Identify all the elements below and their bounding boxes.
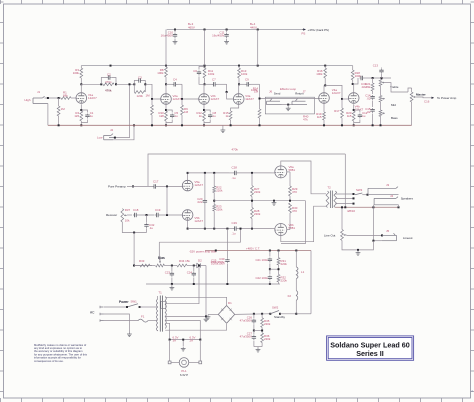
wire jack to grid resistor [45,97,62,99]
resistor R20 cathode [346,111,355,125]
border zone label remnant [471,389,473,393]
resistor R1 68k [61,91,71,100]
title block box [327,336,414,360]
wire grid wire bottom [188,228,229,230]
svg-text:consequences of its use.: consequences of its use. [34,359,64,363]
resistor R23 grid leak [213,205,223,229]
wire bridge minus to ground [208,313,218,315]
switch SW3 impedance [355,188,363,195]
label High input [25,98,31,102]
svg-text:Send: Send [274,91,281,95]
svg-text:470: 470 [292,209,297,213]
tube V5b [182,210,193,221]
wire J4 sleeve risers [373,205,398,208]
svg-text:12AX7: 12AX7 [211,97,220,101]
label C11 [212,31,225,38]
fuse F1 [138,315,148,323]
svg-text:Speakers: Speakers [401,197,414,201]
potentiometer bias trim [156,260,165,267]
capacitor C10 filter [173,30,178,45]
label Master [416,92,427,96]
tube V4a [319,93,330,104]
svg-text:J2: J2 [110,128,113,132]
resistor R13 plate 100k [238,68,248,78]
label Standby [274,315,286,319]
svg-text:J5: J5 [386,229,389,233]
resistor R34 15k [177,259,197,267]
svg-text:F1: F1 [141,315,145,319]
wire plate R8 to V2a [165,77,167,94]
wire V1a plate up [80,66,82,68]
wire node B drop V4a [324,66,326,68]
svg-text:470: 470 [292,190,297,194]
wire lineout sleeve [342,240,382,251]
svg-text:C24: C24 [187,271,193,275]
label Bass [391,116,398,120]
svg-text:F2: F2 [288,294,292,298]
transformer T1 secondary [165,297,166,329]
ground heater CT [181,347,186,352]
wire V1a cathode to bus [80,124,82,126]
wire top ground bus [48,124,412,126]
svg-text:465V: 465V [188,25,195,29]
svg-text:.02: .02 [366,97,370,101]
capacitor C3 [134,75,145,84]
resistor R9 grid leak [181,99,189,125]
svg-text:J1: J1 [37,90,40,94]
svg-text:.1u: .1u [149,226,153,230]
tube V2a [161,94,172,105]
svg-text:Recover: Recover [106,213,117,217]
diode bridge D1 [218,301,234,323]
resistor R31 [277,251,287,270]
svg-text:C7: C7 [212,78,216,82]
svg-text:100k: 100k [73,71,80,75]
wire C4 to V2b grid [181,84,199,100]
wire rect mid link [254,330,263,332]
wire master to output [416,97,434,99]
resistor R7 1M grid leak V2a [145,94,153,126]
wire plate R to V1a [80,78,82,93]
capacitor C17 [153,180,159,189]
capacitor C11 filter [224,30,229,45]
label V6a [289,165,296,172]
wire grid resistor to V1 grid [47,97,76,99]
label C26 [240,316,253,323]
svg-text:SW2: SW2 [272,306,279,310]
svg-text:1k5: 1k5 [74,114,79,118]
label R14b 100k [251,88,258,92]
wire bias ground bus [146,283,280,285]
svg-text:High: High [25,98,31,102]
svg-text:Bass: Bass [391,116,398,120]
svg-text:12AX7: 12AX7 [173,97,182,101]
connector J2 low jack [104,128,115,140]
svg-text:1M: 1M [145,94,150,98]
svg-text:AC: AC [90,311,95,315]
wire bias filter drop [225,229,229,284]
svg-text:220k: 220k [281,279,288,283]
svg-text:33k: 33k [366,85,371,89]
wire bias transformer feed 2 [205,266,207,317]
label impedance taps [347,209,355,213]
label +470V (back PS) [302,28,329,36]
svg-text:C23: C23 [165,271,171,275]
svg-text:12AX7: 12AX7 [194,183,203,187]
resistor R6 grid [134,83,146,98]
resistor R29 screen V6a [287,172,298,202]
wire jack sleeve down [47,104,49,126]
wire rect stack bottom [254,346,262,349]
wire RC to second network [116,83,135,85]
svg-text:100k: 100k [355,74,362,78]
connector J1 high jack [33,90,48,103]
svg-text:D1: D1 [228,301,232,305]
svg-text:C17: C17 [153,180,159,184]
capacitor C6 plate bypass [193,67,204,85]
tube V1a [76,93,87,104]
wire C17 to V5a grid [158,185,183,187]
svg-text:SW3: SW3 [356,188,363,192]
svg-text:220k: 220k [264,337,271,341]
transformer T1 shield [161,301,166,308]
transformer T2 secondary [334,191,337,208]
svg-text:220k: 220k [264,322,271,326]
label B+4 [250,22,257,29]
svg-text:47u/350V: 47u/350V [240,335,252,339]
potentiometer treble [379,78,385,86]
potentiometer bass [379,102,385,125]
terminal heater 1 [168,361,171,364]
wire T2 secondary taps [335,193,354,205]
transformer T1 core [160,296,162,332]
ground bias bus [170,284,175,290]
label V2b [211,94,220,101]
box effects loop [265,97,314,114]
svg-text:C13: C13 [373,64,379,68]
capacitor C13 treble [373,64,384,79]
label Effects Loop [280,87,296,91]
svg-text:C29: C29 [232,221,238,225]
transformer T2 primary [326,191,329,208]
label Pure Preamp [108,184,126,188]
svg-text:L1: L1 [301,270,305,274]
svg-text:12AX7: 12AX7 [332,91,341,95]
potentiometer recover [121,208,131,223]
connector J6 send jack [267,90,282,105]
ground top bus symbol [221,125,226,132]
svg-text:T2: T2 [327,186,331,190]
label T1 [158,291,162,295]
wire R13 to V3a plate [238,78,240,94]
connector J3 speaker jack [368,183,399,195]
wire cathode down R10 [165,104,167,111]
label Return [295,91,304,95]
capacitor C22 [255,269,272,285]
capacitor C29 coupling [229,221,272,236]
lamp PL1 [171,358,199,368]
tube V6a [275,166,287,178]
resistor R36 [261,331,271,347]
label net y154 [232,147,239,151]
svg-text:To Power Amp: To Power Amp [437,96,457,100]
fuse F2 [288,288,298,314]
label lamp 6.3V [180,373,188,377]
resistor R12 cathode [196,111,205,125]
switch SW2 standby [268,306,297,315]
svg-text:SW1: SW1 [131,299,138,303]
svg-text:+480 / C.T.: +480 / C.T. [246,246,260,250]
potentiometer line out [341,206,347,240]
wire AC safety ground [104,320,139,322]
label To Power Amp [437,96,457,100]
wire lineout drop [372,207,374,240]
svg-text:3A: 3A [173,338,177,342]
svg-text:Lineout: Lineout [403,236,413,240]
svg-text:1k5: 1k5 [317,115,322,119]
label fx aux [303,115,309,122]
svg-text:1k: 1k [226,114,230,118]
wire low jack up 1 [114,83,131,138]
transformer T1 primary [148,296,158,331]
svg-text:R33: R33 [139,259,145,263]
svg-text:C16: C16 [424,100,430,104]
wire recover wiper [127,214,132,216]
wire heater down 2 [199,340,201,361]
svg-text:+470v (back PS): +470v (back PS) [308,28,329,32]
terminal heater 2 [199,361,202,364]
capacitor C28 coupling [229,166,272,181]
resistor R30 screen V6b [287,203,298,230]
label B+3 [188,22,195,29]
wire recover to bias [122,222,146,266]
wire tone stack top row [372,77,391,79]
wire V1a plate to RC network [81,83,102,85]
wire heater rail [169,339,202,341]
resistor R5 470k [103,83,117,92]
svg-text:C3: C3 [138,75,142,79]
label Line Out [324,234,336,238]
svg-text:220k: 220k [216,208,223,212]
label Mid [391,103,396,107]
wire tone stack out [385,83,408,92]
resistor R16 plate V4a [316,68,326,78]
svg-text:J7: J7 [303,90,306,94]
wire V6a plate [281,161,326,194]
wire node B drop V3a [238,66,240,68]
svg-text:R37: R37 [125,208,131,212]
wire heater mid [182,339,184,346]
svg-text:Mid: Mid [391,103,396,107]
wire C9 down to FX send [259,84,261,98]
wire rail drop V2a plate [165,30,167,68]
switch SW1 power [104,299,154,308]
svg-text:12AX7: 12AX7 [245,97,254,101]
ground mains earth [127,332,132,337]
wire V6b grid [272,228,275,230]
svg-text:1u: 1u [212,114,216,118]
svg-text:2A: 2A [190,338,194,342]
connector J5 lineout jack [382,229,397,241]
wire rail drop V2b [204,30,206,68]
svg-text:C4: C4 [173,78,177,82]
label heater 6.3V b [190,335,196,342]
label Lineout [403,236,413,240]
resistor R11 plate 100k [203,68,215,78]
resistor R10 cathode [158,111,167,125]
resistor R32 [277,269,287,284]
wire AC neutral [104,314,130,332]
label V4a [332,88,341,95]
label V1a [88,93,97,100]
svg-text:470k: 470k [232,147,239,151]
label 470p [105,80,112,84]
wire V4a plate coupling [325,85,343,100]
wire HV secondary bottom [165,324,226,330]
node B+ bus dots [269,250,297,252]
tube V2b [199,94,210,105]
svg-text:47u/350V: 47u/350V [240,319,252,323]
svg-text:D2: D2 [198,259,202,263]
resistor R15 cathode [223,111,232,125]
capacitor C26 [252,314,256,332]
svg-text:.022: .022 [197,200,203,204]
wire C7 to V3a grid [226,84,234,99]
svg-text:1u: 1u [90,114,94,118]
resistor R19 cathode V4a [316,112,325,125]
svg-text:J4: J4 [390,194,393,198]
capacitor C7 coupling [205,78,227,87]
svg-text:1M: 1M [184,110,189,114]
svg-text:Series II: Series II [356,349,384,358]
svg-text:Power: Power [119,300,129,304]
svg-text:PS: PS [302,31,306,35]
svg-text:J6: J6 [269,90,272,94]
ground bias reference [204,317,209,322]
svg-text:T1: T1 [158,291,162,295]
svg-text:220k: 220k [281,262,288,266]
wire V2a cathode to bus [165,124,167,126]
capacitor C12 bypass [354,110,368,123]
wire bias pot feed [158,242,161,260]
svg-text:C2: C2 [107,72,111,76]
capacitor C15 bass [365,101,375,126]
wire V2b cathode to bus [203,124,205,126]
svg-text:16u/450V: 16u/450V [161,34,173,38]
label V5b [194,216,203,223]
svg-text:100k: 100k [208,72,215,76]
resistor R35 [261,314,271,331]
wire B+ rail [167,29,302,31]
resistor R18 plate V4b [351,70,361,80]
label Recover [106,213,117,217]
svg-text:Line Out: Line Out [324,234,336,238]
svg-text:6.3V P: 6.3V P [180,373,188,377]
capacitor C9 coupling [239,78,260,87]
svg-text:1k8: 1k8 [159,114,164,118]
svg-text:.02: .02 [366,110,370,114]
svg-text:C6: C6 [193,69,197,73]
label Power [119,300,129,304]
resistor R2 1M grid leak [57,98,65,125]
wire cathode down R4 [80,104,82,111]
capacitor C4 coupling [166,78,182,87]
wire V6b plate [281,206,326,242]
label heater 6.3V a [173,335,179,342]
svg-text:J3: J3 [386,183,389,187]
capacitor C31 coupling [360,76,373,89]
svg-text:1u: 1u [174,114,178,118]
node rail junction dots [174,29,259,31]
svg-text:Master: Master [416,92,427,96]
capacitor C2 470p [101,72,116,84]
svg-text:220k: 220k [254,190,261,194]
svg-text:16u/450V: 16u/450V [212,34,224,38]
wire selector to speaker jack [362,194,368,196]
wire rail drop to node B [257,30,259,66]
label AC [90,311,95,315]
label power supply note [189,249,217,253]
svg-text:Effects Loop: Effects Loop [280,87,296,91]
wire cathode down R20 [353,104,355,111]
svg-text:C21 100u: C21 100u [255,258,268,262]
wire low jack up 2 [113,124,135,140]
svg-text:R17: R17 [334,109,340,113]
potentiometer mid [379,86,385,102]
svg-text:220k: 220k [254,212,261,216]
svg-text:440V: 440V [250,25,257,29]
wire V4b cathode to bus [353,124,355,126]
wire preamp tap to cap [133,185,153,187]
tube V5a [182,180,193,191]
svg-text:R34 15k: R34 15k [179,259,190,263]
svg-text:100k: 100k [157,71,164,75]
wire grid wire top [188,172,229,174]
svg-text:100k: 100k [316,72,323,76]
wire standby to B+ riser [296,313,311,315]
label PL1 [181,369,187,373]
wire V6a grid [272,172,275,174]
wire V3a cathode down [231,104,239,111]
resistor R14 1M [253,87,261,126]
connector J7 return jack [292,90,307,105]
label V2a [173,94,182,101]
wire C19 to V5b grid [160,214,182,216]
title text line 2 [356,349,384,358]
svg-text:C9: C9 [245,78,249,82]
svg-text:.1u: .1u [232,176,236,180]
capacitor C5 bypass [166,110,178,123]
svg-text:-52V power amp bias: -52V power amp bias [189,249,217,253]
wire V4a cathode [323,103,325,112]
ground speaker common [356,250,361,255]
choke L1 [296,251,304,289]
wire R18 to V4b plate [352,80,354,93]
wire x167 link [166,186,168,215]
label V3a [245,94,254,101]
svg-text:Soldano Super Lead 60: Soldano Super Lead 60 [330,340,409,349]
label C16 [424,100,430,104]
wire to V4b grid [342,98,348,100]
wire B+ node B [81,65,352,67]
svg-text:Pure Preamp: Pure Preamp [108,184,126,188]
resistor R22 grid leak [213,173,223,205]
svg-text:C19: C19 [155,208,161,212]
label Bias [158,256,165,260]
wire C18 to C19 [138,214,154,216]
wire node B to V4b plate [352,66,354,70]
wire heater down 1 [169,340,171,361]
